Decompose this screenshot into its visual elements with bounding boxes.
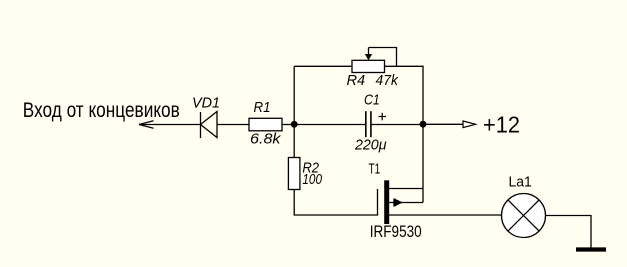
wire: drain lead to lamp: [389, 214, 502, 216]
resistor R2: [288, 158, 300, 190]
wire: right rail down: [422, 124, 424, 202]
svg-text:IRF9530: IRF9530: [370, 223, 422, 241]
svg-text:R1: R1: [254, 100, 271, 116]
wire: R4 right to rail: [385, 66, 424, 124]
svg-text:+12: +12: [483, 112, 520, 138]
wire: R1 to node: [282, 124, 294, 126]
wire: diode to R1: [217, 124, 249, 126]
svg-text:100: 100: [302, 172, 322, 188]
wire: lamp to ground: [546, 216, 592, 248]
node +12 arrow: [463, 121, 476, 128]
wire: arrow tip to diode: [139, 124, 201, 126]
capacitor C1: [366, 111, 371, 137]
svg-text:Вход от концевиков: Вход от концевиков: [23, 98, 180, 122]
svg-text:R4: R4: [347, 73, 366, 89]
potentiometer R4: [352, 48, 385, 73]
wire: C1 to right node: [371, 124, 423, 126]
svg-text:220μ: 220μ: [354, 138, 387, 154]
resistor R1: [249, 118, 282, 131]
polarity plus sign: [379, 113, 387, 121]
svg-text:La1: La1: [509, 175, 532, 191]
svg-text:T1: T1: [369, 162, 381, 178]
lamp La1: [502, 194, 546, 238]
wire: body lead with arrow: [389, 199, 423, 207]
wire: input arrow: [139, 121, 154, 128]
wire: left vertical rail: [293, 66, 295, 157]
diode VD1: [201, 112, 218, 139]
wire: node to C1: [294, 124, 366, 126]
wire: node to +12 arrow: [423, 123, 463, 125]
transistor T1 gate-channel bar: [384, 180, 389, 224]
ground: [576, 247, 606, 251]
svg-text:VD1: VD1: [192, 96, 220, 112]
svg-text:47k: 47k: [376, 73, 399, 89]
svg-text:6.8k: 6.8k: [250, 132, 281, 148]
wire: source lead: [389, 188, 423, 190]
wire: R4 wiper loop: [369, 48, 397, 67]
junction node right: [420, 121, 427, 128]
wire: top rail left: [294, 65, 352, 67]
svg-text:C1: C1: [364, 93, 380, 109]
junction node left: [291, 121, 298, 128]
wire: R2 to gate: [294, 189, 377, 215]
